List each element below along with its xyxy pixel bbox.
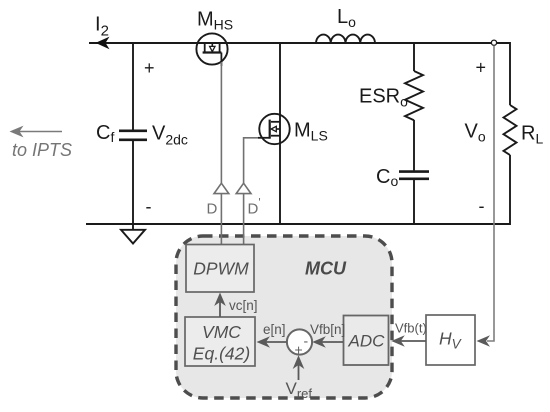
MCU block dashed container <box>176 236 392 398</box>
svg-text:Eq.(42): Eq.(42) <box>193 344 250 364</box>
wire gate D' (from M_LS) <box>244 138 258 183</box>
wire gate D (from M_HS) <box>220 62 222 183</box>
wire sense Vo to HV <box>487 46 494 342</box>
block ADC <box>344 316 389 366</box>
svg-text:+: + <box>144 58 155 78</box>
wire D to DPWM <box>220 194 222 245</box>
buffer D' <box>236 183 251 193</box>
svg-text:+: + <box>295 342 303 358</box>
block HV <box>426 315 475 365</box>
svg-text:e[n]: e[n] <box>263 322 286 337</box>
block VMC Eq.(42) <box>185 317 255 366</box>
svg-text:+: + <box>476 58 487 78</box>
svg-text:-: - <box>479 196 485 216</box>
svg-text:to IPTS: to IPTS <box>12 140 72 160</box>
wire D' to DPWM <box>243 194 245 245</box>
arrow Vfb(t) HV to ADC <box>391 321 426 347</box>
wire bottom rail <box>86 223 510 225</box>
wire right vertical upper <box>509 42 511 105</box>
arrow to IPTS <box>10 126 63 138</box>
arrow Vfb[n] ADC to summing <box>310 322 345 348</box>
svg-text:VMC: VMC <box>202 322 241 342</box>
svg-text:MCU: MCU <box>305 259 347 279</box>
svg-text:Vfb[n]: Vfb[n] <box>310 322 345 337</box>
svg-text:-: - <box>304 333 309 349</box>
svg-text:vc[n]: vc[n] <box>229 298 258 313</box>
ground <box>121 230 145 244</box>
svg-text:D: D <box>207 201 218 218</box>
arrow into HV <box>477 335 491 347</box>
capacitor Co <box>399 172 429 225</box>
node Vo sense <box>491 40 496 45</box>
resistor ESRo <box>405 43 423 170</box>
arrow vc[n] VMC to DPWM <box>214 293 257 318</box>
svg-text:-: - <box>146 197 152 217</box>
current arrow I2 <box>96 37 110 50</box>
svg-text:Vfb(t): Vfb(t) <box>395 321 427 336</box>
arrow Vref into summing <box>286 355 313 401</box>
svg-text:ADC: ADC <box>348 332 386 351</box>
svg-text:DPWM: DPWM <box>193 259 249 279</box>
transistor Q2 M_LS <box>258 114 290 144</box>
summing junction <box>287 329 312 357</box>
capacitor Cf <box>119 43 147 229</box>
transistor Q1 M_HS <box>196 33 227 66</box>
wire top rail <box>89 42 510 44</box>
buffer D <box>214 183 229 193</box>
wire M_LS branch vertical <box>279 43 281 225</box>
arrow e[n] summing to VMC <box>257 322 287 348</box>
resistor RL <box>504 105 517 155</box>
wire right vertical lower <box>509 155 511 225</box>
inductor Lo <box>316 35 375 43</box>
block DPWM <box>186 245 254 293</box>
